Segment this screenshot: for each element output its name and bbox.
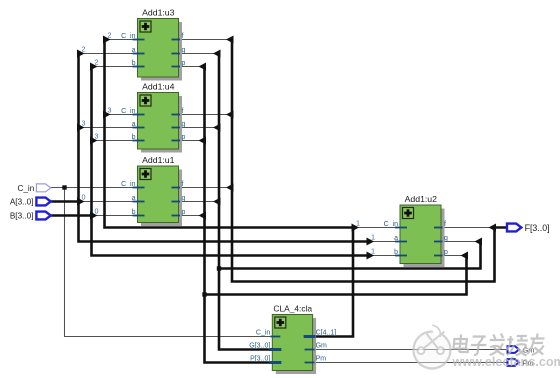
svg-text:p: p <box>182 134 186 141</box>
svg-text:3: 3 <box>108 106 112 115</box>
svg-text:F[3..0]: F[3..0] <box>525 223 550 233</box>
svg-text:0: 0 <box>95 207 99 216</box>
svg-text:2: 2 <box>82 45 86 54</box>
svg-text:1: 1 <box>371 233 375 242</box>
svg-text:1: 1 <box>371 247 375 256</box>
svg-text:2: 2 <box>108 31 112 40</box>
svg-text:0: 0 <box>82 193 86 202</box>
svg-text:3: 3 <box>95 132 99 141</box>
svg-text:f: f <box>182 108 184 115</box>
svg-text:Add1:u2: Add1:u2 <box>405 194 438 204</box>
svg-text:3: 3 <box>82 119 86 128</box>
svg-text:f: f <box>444 221 446 228</box>
svg-text:B[3..0]: B[3..0] <box>10 212 34 221</box>
svg-text:C[4..1]: C[4..1] <box>316 330 337 337</box>
svg-text:f: f <box>182 33 184 40</box>
svg-text:Add1:u1: Add1:u1 <box>142 155 175 165</box>
svg-text:p: p <box>182 209 186 216</box>
svg-text:b: b <box>132 209 136 216</box>
svg-text:C_in: C_in <box>256 330 271 337</box>
svg-text:f: f <box>182 181 184 188</box>
svg-text:Gm: Gm <box>316 343 327 350</box>
svg-text:CLA_4:cla: CLA_4:cla <box>273 304 312 314</box>
svg-text:a: a <box>132 195 136 202</box>
svg-text:b: b <box>394 249 398 256</box>
svg-text:Pm: Pm <box>316 356 327 363</box>
svg-text:g: g <box>182 195 186 202</box>
svg-text:a: a <box>132 121 136 128</box>
svg-text:C_in: C_in <box>121 181 136 188</box>
svg-text:p: p <box>182 60 186 67</box>
svg-text:g: g <box>182 121 186 128</box>
svg-text:C_in: C_in <box>121 33 136 40</box>
svg-text:g: g <box>444 235 448 242</box>
svg-text:C_in: C_in <box>384 221 399 228</box>
svg-text:b: b <box>132 60 136 67</box>
svg-text:b: b <box>132 134 136 141</box>
svg-text:P[3..0]: P[3..0] <box>250 356 270 363</box>
svg-text:Add1:u3: Add1:u3 <box>142 8 175 18</box>
svg-text:www.elecfans.com: www.elecfans.com <box>452 355 560 369</box>
svg-text:2: 2 <box>95 58 99 67</box>
svg-text:C_in: C_in <box>121 108 136 115</box>
svg-text:G[3..0]: G[3..0] <box>249 343 270 350</box>
svg-text:a: a <box>132 47 136 54</box>
svg-text:Add1:u4: Add1:u4 <box>142 82 175 92</box>
svg-text:a: a <box>394 235 398 242</box>
svg-text:C_in: C_in <box>17 184 34 193</box>
svg-text:p: p <box>444 249 448 256</box>
svg-text:g: g <box>182 47 186 54</box>
svg-text:1: 1 <box>356 219 360 228</box>
svg-text:A[3..0]: A[3..0] <box>10 198 34 207</box>
